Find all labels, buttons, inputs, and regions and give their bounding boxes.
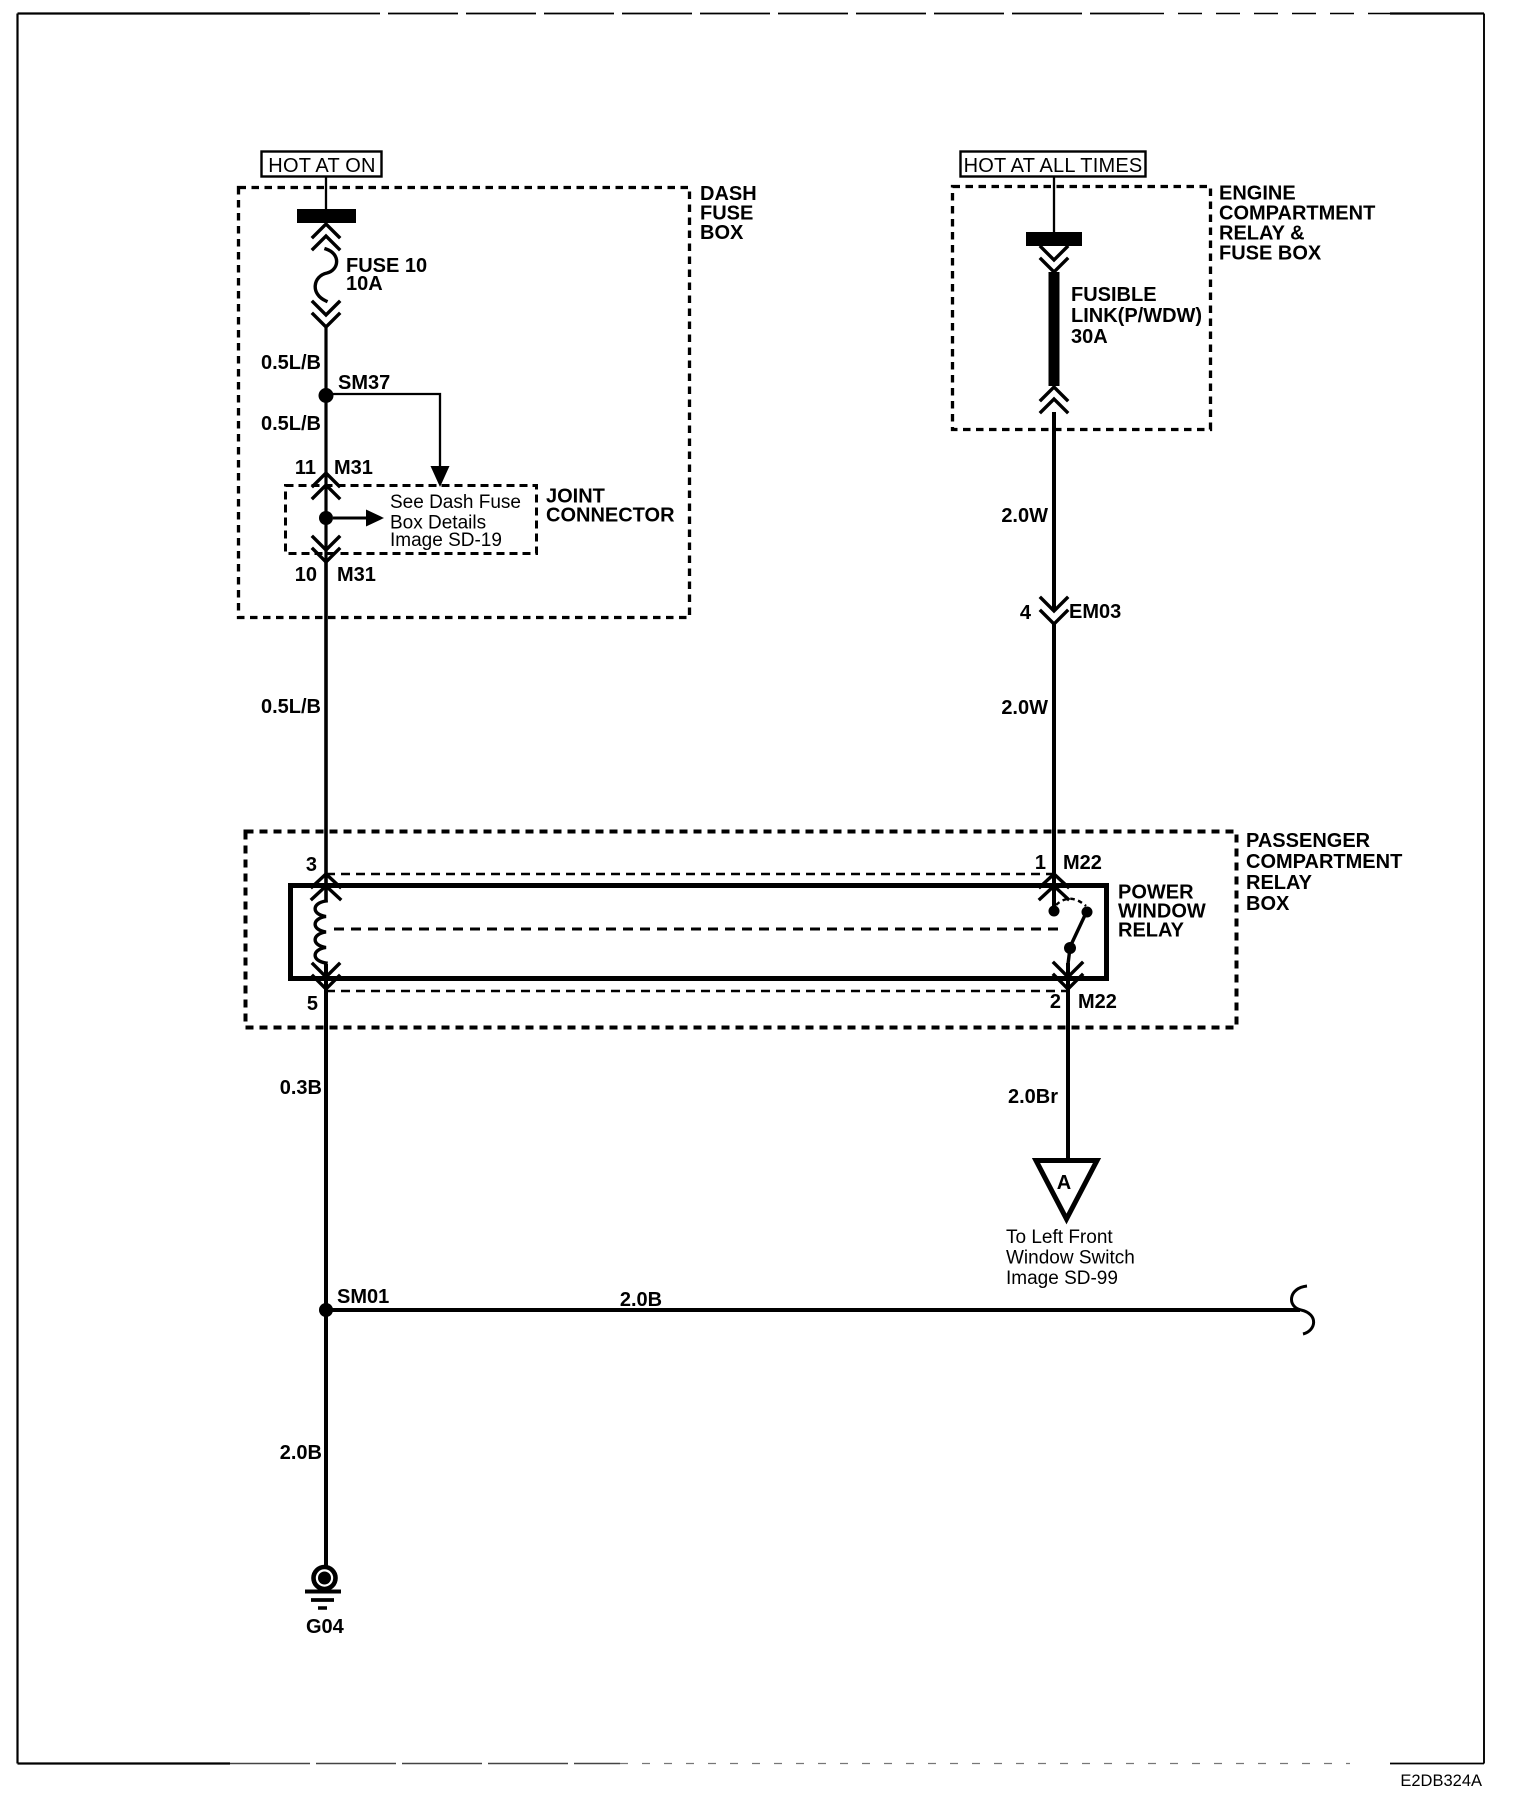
svg-text:M22: M22 <box>1063 852 1102 874</box>
wire SM01 to off-page right <box>326 1289 1300 1311</box>
svg-text:0.5L/B: 0.5L/B <box>261 352 321 374</box>
svg-text:0.5L/B: 0.5L/B <box>261 696 321 718</box>
relay connector dashed line bottom <box>326 990 1067 993</box>
svg-text:30A: 30A <box>1071 326 1108 348</box>
svg-text:A: A <box>1057 1172 1071 1194</box>
svg-text:RELAY: RELAY <box>1246 872 1313 894</box>
node SM01 <box>319 1286 389 1317</box>
svg-text:2.0B: 2.0B <box>280 1442 322 1464</box>
svg-text:M22: M22 <box>1078 991 1117 1013</box>
banner HOT AT ALL TIMES <box>961 152 1146 178</box>
svg-text:SM01: SM01 <box>337 1286 389 1308</box>
svg-text:EM03: EM03 <box>1069 601 1121 623</box>
connector pin 2 M22 <box>1050 963 1117 1013</box>
power window relay <box>291 882 1206 979</box>
relay switch <box>1049 876 1093 964</box>
wire fuse to SM37 <box>324 327 327 396</box>
svg-text:10A: 10A <box>346 273 383 295</box>
svg-text:2.0B: 2.0B <box>620 1289 662 1311</box>
relay internal dashed line <box>334 928 1062 931</box>
svg-text:CONNECTOR: CONNECTOR <box>546 505 675 527</box>
svg-text:Image SD-19: Image SD-19 <box>390 530 502 551</box>
svg-text:PASSENGER: PASSENGER <box>1246 830 1371 852</box>
dash fuse box <box>239 183 757 618</box>
svg-text:11: 11 <box>295 457 316 479</box>
wire from banner to fusible link <box>1053 177 1055 233</box>
wire from HOT AT ON to fuse 10 <box>325 177 327 225</box>
wire EM03 to relay pin 1 <box>1052 624 1056 876</box>
wire through joint connector <box>324 396 327 562</box>
wire relay pin 2 to connector A <box>1066 963 1070 1160</box>
svg-text:M31: M31 <box>337 564 376 586</box>
engine compartment relay and fuse box <box>953 183 1376 430</box>
svg-text:2.0Br: 2.0Br <box>1008 1086 1058 1108</box>
banner HOT AT ON <box>262 152 382 178</box>
off-page connector A <box>1006 1161 1135 1290</box>
svg-text:COMPARTMENT: COMPARTMENT <box>1219 203 1375 225</box>
svg-text:See Dash Fuse: See Dash Fuse <box>390 492 521 513</box>
svg-text:0.3B: 0.3B <box>280 1077 322 1099</box>
svg-text:To Left Front: To Left Front <box>1006 1227 1113 1248</box>
wire fusible link to EM03 <box>1052 412 1056 611</box>
svg-text:3: 3 <box>306 854 317 876</box>
connector 4 EM03 <box>1020 598 1121 624</box>
svg-text:0.5L/B: 0.5L/B <box>261 413 321 435</box>
svg-text:BOX: BOX <box>700 222 744 244</box>
passenger compartment relay box <box>246 830 1403 1028</box>
joint connector <box>286 486 676 554</box>
wire SM01 to ground <box>324 1310 328 1566</box>
svg-text:FUSIBLE: FUSIBLE <box>1071 284 1157 306</box>
svg-text:FUSE BOX: FUSE BOX <box>1219 243 1322 265</box>
svg-text:2.0W: 2.0W <box>1001 697 1048 719</box>
svg-text:10: 10 <box>295 564 317 586</box>
off-page squiggle <box>1291 1286 1313 1334</box>
fusible link P/WDW 30A <box>1026 232 1202 412</box>
wire branch SM37 to joint connector <box>326 394 450 487</box>
svg-text:E2DB324A: E2DB324A <box>1400 1772 1482 1790</box>
svg-text:COMPARTMENT: COMPARTMENT <box>1246 851 1402 873</box>
svg-text:HOT AT ALL TIMES: HOT AT ALL TIMES <box>964 155 1143 177</box>
svg-text:1: 1 <box>1035 852 1046 874</box>
node SM37 <box>319 372 391 403</box>
svg-text:2: 2 <box>1050 991 1061 1013</box>
node 3 (relay pin 3) <box>306 854 340 899</box>
fuse FUSE 10 10A <box>297 209 427 327</box>
connector pin 1 M22 <box>1035 852 1102 899</box>
svg-text:ENGINE: ENGINE <box>1219 183 1296 205</box>
svg-text:M31: M31 <box>334 457 373 479</box>
svg-text:HOT AT ON: HOT AT ON <box>268 155 375 177</box>
svg-text:Window Switch: Window Switch <box>1006 1248 1135 1269</box>
relay coil <box>315 901 326 963</box>
wire relay pin 5 to SM01 <box>324 964 328 1310</box>
relay connector dashed line top <box>326 873 1054 876</box>
svg-text:RELAY &: RELAY & <box>1219 223 1305 245</box>
node 5 (relay pin 5) <box>307 964 339 1015</box>
wire 10 M31 to relay pin 3 <box>324 562 328 902</box>
svg-text:2.0W: 2.0W <box>1001 505 1048 527</box>
connector pin 10 M31 <box>295 537 376 586</box>
connector pin 11 M31 <box>295 457 373 498</box>
svg-text:BOX: BOX <box>1246 893 1290 915</box>
svg-text:5: 5 <box>307 993 318 1015</box>
svg-text:LINK(P/WDW): LINK(P/WDW) <box>1071 305 1202 327</box>
svg-text:G04: G04 <box>306 1616 345 1638</box>
ground G04 <box>305 1567 345 1638</box>
svg-text:RELAY: RELAY <box>1118 920 1185 942</box>
svg-text:4: 4 <box>1020 602 1032 624</box>
svg-text:Image SD-99: Image SD-99 <box>1006 1268 1118 1289</box>
svg-text:SM37: SM37 <box>338 372 390 394</box>
